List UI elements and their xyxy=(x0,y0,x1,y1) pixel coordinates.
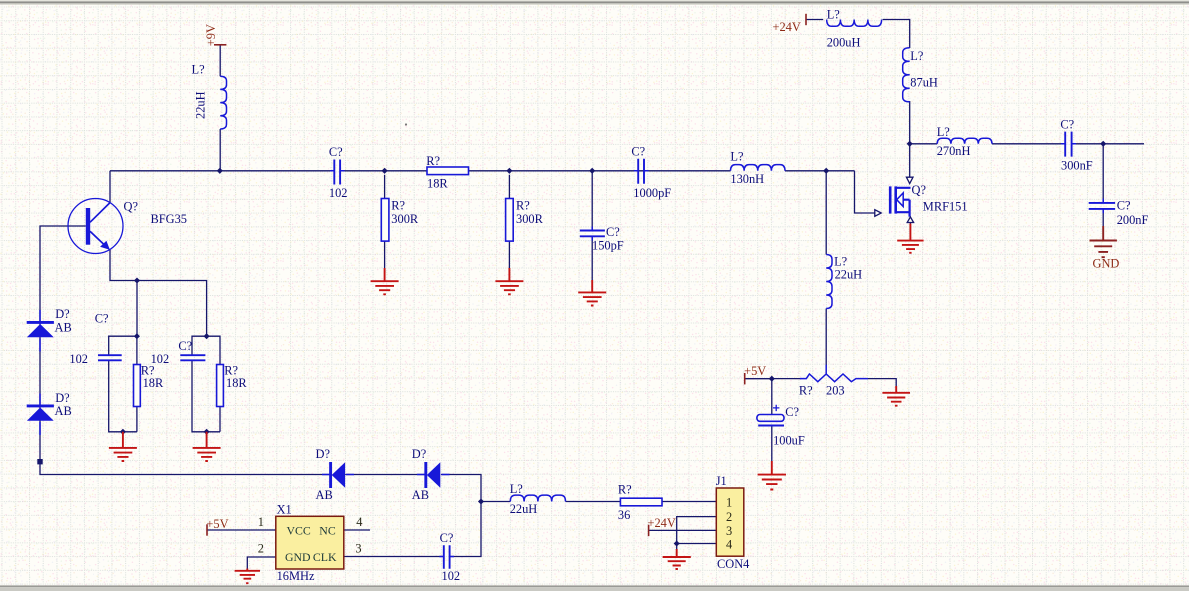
svg-text:C?: C? xyxy=(1060,118,1074,132)
svg-text:+5V: +5V xyxy=(744,364,766,378)
svg-text:+24V: +24V xyxy=(773,20,801,34)
svg-text:L?: L? xyxy=(910,49,923,63)
svg-text:AB: AB xyxy=(316,488,333,502)
svg-text:102: 102 xyxy=(329,186,348,200)
svg-text:200uH: 200uH xyxy=(827,36,861,50)
svg-text:C?: C? xyxy=(606,225,620,239)
svg-text:L?: L? xyxy=(730,150,743,164)
svg-text:GND: GND xyxy=(1093,256,1120,270)
svg-text:R?: R? xyxy=(426,154,440,168)
svg-text:1000pF: 1000pF xyxy=(633,186,671,200)
svg-text:BFG35: BFG35 xyxy=(151,212,188,226)
svg-text:36: 36 xyxy=(618,508,630,522)
svg-text:130nH: 130nH xyxy=(730,172,764,186)
svg-text:NC: NC xyxy=(319,524,336,538)
svg-text:300nF: 300nF xyxy=(1061,158,1093,172)
svg-text:1: 1 xyxy=(726,496,732,510)
svg-text:AB: AB xyxy=(55,404,72,418)
svg-text:L?: L? xyxy=(834,254,847,268)
svg-text:MRF151: MRF151 xyxy=(923,200,968,214)
svg-text:4: 4 xyxy=(356,515,362,529)
svg-text:Q?: Q? xyxy=(912,183,926,197)
svg-text:AB: AB xyxy=(55,321,72,335)
svg-text:VCC: VCC xyxy=(287,524,311,538)
svg-text:16MHz: 16MHz xyxy=(277,569,315,583)
svg-text:D?: D? xyxy=(55,307,69,321)
svg-text:GND: GND xyxy=(285,550,311,564)
svg-text:+24V: +24V xyxy=(648,516,676,530)
svg-text:203: 203 xyxy=(826,383,845,397)
svg-text:200nF: 200nF xyxy=(1117,213,1149,227)
svg-text:C?: C? xyxy=(440,531,454,545)
svg-text:C?: C? xyxy=(329,145,343,159)
svg-text:CLK: CLK xyxy=(313,550,337,564)
svg-text:R?: R? xyxy=(618,483,632,497)
svg-text:100uF: 100uF xyxy=(773,434,805,448)
svg-text:150pF: 150pF xyxy=(592,239,624,253)
svg-text:CON4: CON4 xyxy=(717,557,749,571)
svg-text:C?: C? xyxy=(631,144,645,158)
svg-text:D?: D? xyxy=(55,391,69,405)
svg-text:L?: L? xyxy=(827,8,840,22)
svg-text:270nH: 270nH xyxy=(937,144,971,158)
svg-text:AB: AB xyxy=(412,488,429,502)
svg-text:22uH: 22uH xyxy=(835,267,863,281)
svg-text:L?: L? xyxy=(510,482,523,496)
svg-text:3: 3 xyxy=(355,542,361,556)
svg-text:102: 102 xyxy=(69,352,88,366)
svg-text:D?: D? xyxy=(412,447,426,461)
svg-text:87uH: 87uH xyxy=(910,76,938,90)
svg-text:L?: L? xyxy=(937,125,950,139)
svg-text:22uH: 22uH xyxy=(510,502,538,516)
svg-text:+9V: +9V xyxy=(204,24,218,46)
svg-text:D?: D? xyxy=(316,447,330,461)
svg-text:300R: 300R xyxy=(391,212,419,226)
svg-text:X1: X1 xyxy=(277,503,292,517)
svg-text:R?: R? xyxy=(391,198,405,212)
svg-text:4: 4 xyxy=(726,538,732,552)
svg-text:+5V: +5V xyxy=(206,517,228,531)
svg-text:C?: C? xyxy=(95,311,109,325)
svg-text:18R: 18R xyxy=(427,176,448,190)
svg-text:J1: J1 xyxy=(716,474,727,488)
svg-text:C?: C? xyxy=(1117,199,1131,213)
svg-text:L?: L? xyxy=(192,63,205,77)
svg-text:Q?: Q? xyxy=(124,199,138,213)
svg-text:C?: C? xyxy=(178,339,192,353)
svg-text:C?: C? xyxy=(785,405,799,419)
svg-text:22uH: 22uH xyxy=(194,91,208,119)
svg-text:1: 1 xyxy=(258,515,264,529)
svg-text:3: 3 xyxy=(726,524,732,538)
svg-text:102: 102 xyxy=(442,569,461,583)
svg-text:R?: R? xyxy=(799,383,813,397)
svg-text:2: 2 xyxy=(726,510,732,524)
svg-text:300R: 300R xyxy=(516,212,544,226)
svg-text:18R: 18R xyxy=(226,376,247,390)
svg-text:18R: 18R xyxy=(143,376,164,390)
svg-text:2: 2 xyxy=(258,542,264,556)
svg-text:R?: R? xyxy=(516,198,530,212)
